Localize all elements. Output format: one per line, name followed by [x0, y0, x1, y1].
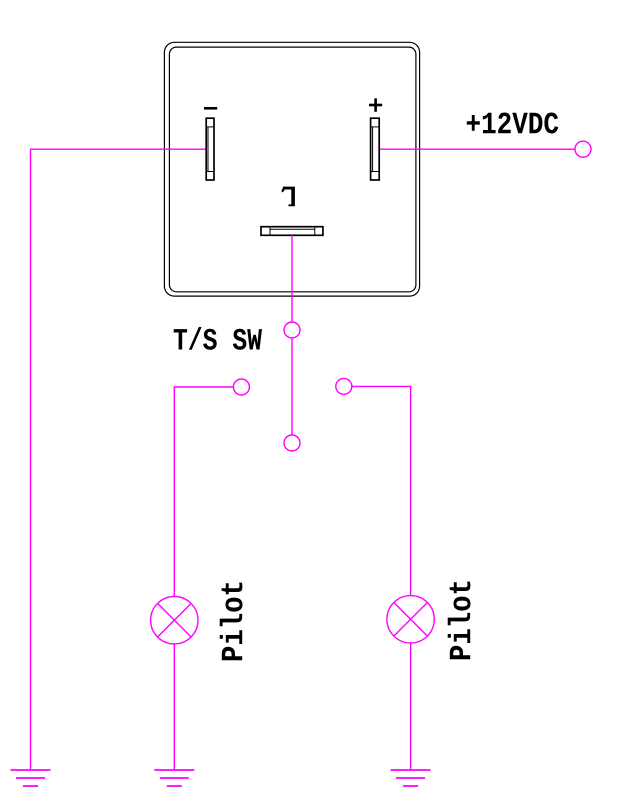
label Pilot (left) — [220, 583, 243, 661]
wire: right contact to right lamp — [352, 386, 411, 595]
node: switch pole circle — [284, 322, 300, 338]
label + (plus) — [369, 98, 382, 112]
wire: left contact to left lamp — [174, 387, 233, 597]
terminal blade - (minus) — [206, 118, 214, 180]
ground G1 (supply minus) — [11, 770, 51, 786]
ground G2 (left lamp) — [154, 770, 194, 786]
node: switch arm end circle — [284, 435, 300, 451]
ground G3 (right lamp) — [391, 770, 431, 786]
terminal blade + (plus) — [371, 118, 380, 180]
label +12VDC — [467, 113, 559, 134]
node: left throw contact circle — [233, 379, 249, 395]
label - (minus) — [204, 107, 217, 110]
wire: left lamp to ground — [173, 644, 175, 770]
label Pilot (right) — [448, 582, 471, 660]
wire: switch arm — [291, 338, 293, 435]
wire: minus terminal to left ground run — [31, 149, 206, 770]
label T/S SW — [174, 327, 262, 350]
terminal blade L (load) — [261, 227, 323, 236]
lamp DS1 (left pilot) — [151, 597, 198, 644]
wire: right lamp to ground — [410, 643, 412, 770]
node: right throw contact circle — [336, 378, 352, 394]
terminal circle: +12VDC open terminal — [575, 141, 591, 157]
flasher relay U1 body — [164, 42, 419, 296]
lamp DS2 (right pilot) — [387, 596, 434, 643]
wire: L terminal to switch pole — [291, 235, 293, 322]
label L (rotated 180) — [282, 187, 295, 207]
wire: plus terminal to +12VDC terminal — [379, 148, 575, 150]
